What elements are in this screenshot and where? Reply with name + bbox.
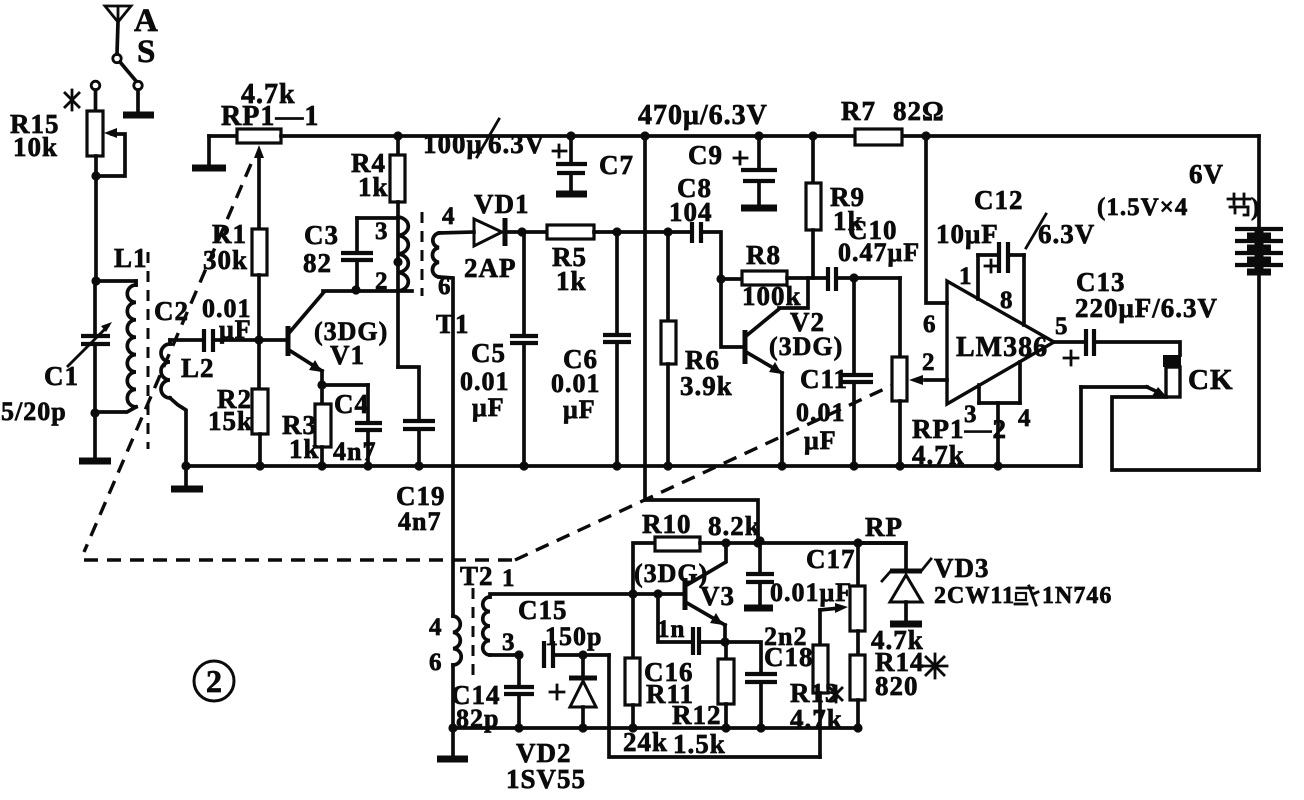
variable capacitor C1 5/20p: [1, 281, 112, 426]
core line T1: [421, 212, 424, 296]
svg-text:4n7: 4n7: [333, 437, 376, 466]
node bottom of tank: [90, 408, 99, 417]
svg-text:6: 6: [923, 311, 937, 338]
ground (C7): [556, 191, 587, 198]
svg-text:82p: 82p: [456, 704, 499, 733]
capacitor C11 0.01uF: [796, 278, 873, 466]
ground (C9): [741, 205, 777, 212]
resistor R8 100k: [721, 240, 828, 311]
antenna A: [105, 3, 159, 54]
capacitor C14 82p: [451, 650, 534, 733]
capacitor C4 4n7: [333, 385, 382, 466]
node rail x645 branch: [640, 131, 649, 140]
dashed gang line (RP1-1 to bottom left): [84, 164, 251, 552]
dashed gang line horizontal: [84, 558, 515, 561]
node base wire dots: [628, 589, 637, 598]
svg-text:4.7k: 4.7k: [912, 440, 965, 470]
svg-text:1k: 1k: [289, 434, 320, 464]
ground (switch S): [123, 112, 154, 119]
potentiometer R15 10k: [10, 81, 125, 281]
svg-text:8.2k: 8.2k: [708, 511, 761, 541]
svg-text:15k: 15k: [208, 406, 253, 436]
svg-text:C18: C18: [764, 642, 814, 672]
core line T2: [472, 588, 475, 678]
svg-text:VD3: VD3: [934, 553, 990, 583]
svg-text:1: 1: [959, 263, 973, 290]
ground rail (main): [186, 464, 1081, 468]
resistor R11 24k: [623, 594, 694, 757]
svg-text:4: 4: [442, 203, 456, 230]
svg-text:1SV55: 1SV55: [506, 764, 586, 794]
potentiometer RP1-2 4.7k: [892, 278, 1007, 470]
resistor R6 3.9k: [661, 227, 733, 466]
battery 6V (1.5V x 4): [1097, 136, 1283, 470]
svg-text:4n7: 4n7: [398, 507, 441, 536]
svg-text:C5: C5: [471, 338, 506, 368]
wire V+ branch down to oscillator: [645, 136, 758, 543]
ground (T2): [451, 728, 455, 757]
svg-text:T2: T2: [460, 561, 494, 591]
resistor R10 8.2k: [633, 509, 906, 594]
capacitor C5 0.01uF: [460, 232, 538, 466]
svg-text:L1: L1: [114, 243, 148, 273]
svg-text:LM386: LM386: [956, 332, 1048, 363]
oscillator ground rail (rail1): [453, 726, 858, 730]
svg-text:C15: C15: [518, 595, 568, 625]
svg-text:82: 82: [303, 248, 332, 278]
svg-text:8: 8: [1000, 287, 1014, 314]
svg-text:24k: 24k: [623, 727, 668, 757]
potentiometer RP1-1 4.7k: [209, 79, 319, 229]
svg-text:S: S: [137, 34, 156, 70]
resistor R4 1k: [351, 131, 405, 367]
jack CK: [1081, 355, 1259, 470]
svg-text:(3DG): (3DG): [634, 559, 708, 588]
transformer T1 primary (pins 3,2): [375, 217, 470, 339]
star mark (R15): [65, 90, 79, 110]
top supply rail: [281, 134, 1259, 138]
inductor L2: [161, 340, 215, 466]
svg-text:150p: 150p: [545, 622, 602, 651]
inductor L1: [95, 243, 148, 412]
svg-text:5/20p: 5/20p: [1, 397, 67, 426]
svg-text:4: 4: [1018, 405, 1032, 432]
transistor V3 (3DG): [634, 543, 735, 642]
svg-text:6: 6: [429, 649, 443, 676]
transformer T2 right winding (pins 1,3): [483, 565, 684, 656]
svg-text:C1: C1: [44, 361, 79, 391]
varactor diode VD2 1SV55: [506, 650, 597, 794]
svg-text:0.01μF: 0.01μF: [770, 578, 852, 607]
svg-text:C7: C7: [599, 150, 634, 180]
svg-text:470μ/6.3V: 470μ/6.3V: [638, 100, 768, 131]
resistor R13 4.7k: [790, 610, 843, 757]
wire L2 top to C2: [170, 338, 203, 342]
svg-text:1k: 1k: [556, 266, 587, 296]
capacitor C10 0.47uF: [828, 215, 920, 291]
svg-text:3: 3: [502, 629, 516, 656]
ground (RP1-1): [192, 165, 226, 172]
svg-text:CK: CK: [1188, 364, 1234, 396]
capacitor C19 4n7: [396, 367, 446, 536]
svg-text:C9: C9: [688, 140, 723, 170]
star mark (R13): [830, 686, 842, 702]
transistor V1 (3DG): [288, 291, 388, 385]
capacitor C18 2n2: [725, 622, 814, 728]
svg-text:μF: μF: [804, 426, 837, 455]
svg-text:0.01: 0.01: [460, 367, 510, 396]
wire collector jog V2: [779, 278, 808, 308]
resistor R9 1k: [806, 131, 865, 278]
feedback rail (rail2): [609, 655, 820, 757]
svg-text:L2: L2: [181, 353, 215, 383]
star mark (R14): [923, 654, 947, 678]
resistor R5 1k: [547, 225, 691, 296]
capacitor C2 0.01uF: [154, 294, 287, 352]
svg-text:1: 1: [502, 565, 516, 592]
wire / node top of tank: [91, 276, 100, 285]
resistor R12 1.5k: [672, 642, 734, 759]
svg-text:10μF: 10μF: [936, 219, 999, 249]
pin 8 stub: [1022, 255, 1026, 325]
svg-text:R7: R7: [841, 96, 876, 126]
capacitor C9 470u/6.3V: [638, 100, 777, 205]
zener diode VD3 2CW11/1N746: [858, 543, 1112, 622]
node V1 base: [254, 335, 263, 344]
svg-text:μF: μF: [219, 315, 252, 344]
pins 3,4: [964, 362, 1032, 466]
resistor R7 82ohm: [841, 96, 945, 145]
svg-text:C4: C4: [334, 389, 369, 419]
svg-text:3: 3: [964, 401, 978, 428]
svg-text:0.01: 0.01: [551, 369, 601, 398]
transformer T2 left winding (pins 4,6): [429, 561, 494, 728]
svg-text:3: 3: [375, 218, 389, 245]
pin 6 wire: [926, 136, 947, 303]
ground (VD3): [890, 621, 922, 628]
svg-text:5: 5: [1055, 313, 1069, 340]
svg-text:2: 2: [922, 349, 936, 376]
svg-text:RP1—1: RP1—1: [221, 101, 319, 132]
core line L1/L2: [147, 252, 150, 449]
glyph huo (CJK): [1015, 586, 1038, 605]
svg-text:1N746: 1N746: [1042, 583, 1112, 609]
svg-text:4.7k: 4.7k: [790, 704, 843, 734]
svg-text:C12: C12: [974, 185, 1024, 215]
node V1 emitter: [317, 380, 326, 389]
svg-text:2AP: 2AP: [464, 253, 517, 283]
resistor R2 15k: [208, 340, 268, 466]
glyph jie (CJK): [1228, 194, 1250, 215]
potentiometer RP 4.7k: [820, 512, 924, 655]
svg-text:C17: C17: [806, 544, 856, 574]
svg-text:6.3V: 6.3V: [1038, 219, 1095, 249]
svg-text:4: 4: [429, 614, 443, 641]
ground (main rail left end): [181, 461, 190, 470]
circled 2 figure number: [194, 661, 234, 701]
svg-text:R10: R10: [642, 509, 692, 539]
ground (C1/L1): [79, 458, 111, 465]
svg-text:μF: μF: [563, 395, 596, 424]
svg-text:V3: V3: [700, 581, 735, 611]
svg-text:1n: 1n: [657, 616, 685, 643]
svg-text:0.47μF: 0.47μF: [838, 238, 920, 267]
resistor R1 30k: [203, 219, 267, 340]
svg-text:10k: 10k: [13, 132, 58, 162]
capacitor C16 1n: [657, 594, 725, 655]
ground (C17): [744, 605, 773, 612]
svg-text:82Ω: 82Ω: [893, 96, 945, 126]
capacitor C17 0.01uF: [746, 536, 856, 607]
svg-text:V1: V1: [330, 340, 365, 370]
svg-text:100μ: 100μ: [423, 129, 483, 159]
capacitor C12 10uF/6.3V: [936, 185, 1095, 273]
svg-text:30k: 30k: [203, 245, 248, 275]
svg-text:6.3V: 6.3V: [488, 129, 545, 159]
svg-text:104: 104: [669, 197, 713, 227]
pin 1 stub: [976, 255, 980, 299]
svg-text:μF: μF: [472, 393, 505, 422]
pin 5 output: [1054, 340, 1085, 344]
transformer T1 secondary (pins 4,6): [432, 203, 474, 616]
svg-text:): ): [1251, 194, 1260, 221]
svg-text:R12: R12: [672, 700, 722, 730]
svg-text:C3: C3: [304, 220, 339, 250]
svg-text:3.9k: 3.9k: [680, 371, 733, 401]
dashed gang line (to RP1-2): [515, 378, 908, 560]
svg-text:C11: C11: [800, 364, 848, 394]
svg-text:VD1: VD1: [474, 189, 530, 219]
svg-text:1.5k: 1.5k: [673, 729, 726, 759]
capacitor C13 220uF/6.3V: [1064, 267, 1218, 365]
svg-text:0.01: 0.01: [796, 398, 846, 427]
svg-text:820: 820: [875, 671, 919, 701]
capacitor C8 104: [669, 173, 743, 347]
ground rail to jack: [1079, 387, 1083, 466]
svg-text:6: 6: [438, 273, 452, 300]
resistor R3 1k: [282, 385, 331, 466]
svg-text:220μF/6.3V: 220μF/6.3V: [1075, 293, 1218, 323]
capacitor C6 0.01uF: [551, 227, 631, 466]
svg-text:(3DG): (3DG): [769, 332, 843, 361]
svg-text:2CW11: 2CW11: [934, 583, 1015, 609]
capacitor C7 100u/6.3V: [423, 119, 634, 192]
capacitor C3 82: [303, 218, 412, 295]
svg-text:2: 2: [206, 663, 223, 699]
resistor R14 820: [850, 647, 925, 728]
switch S: [113, 34, 157, 113]
svg-text:RP: RP: [865, 512, 903, 542]
svg-text:1k: 1k: [358, 172, 389, 202]
op-amp U1 LM386: [947, 281, 1054, 404]
diode VD1 2AP: [464, 189, 547, 283]
capacitor C15 150p: [518, 595, 609, 668]
transistor V2 (3DG): [745, 307, 843, 466]
svg-text:6V: 6V: [1189, 159, 1224, 189]
svg-text:(1.5V×4: (1.5V×4: [1097, 194, 1188, 221]
svg-text:R8: R8: [746, 240, 781, 270]
